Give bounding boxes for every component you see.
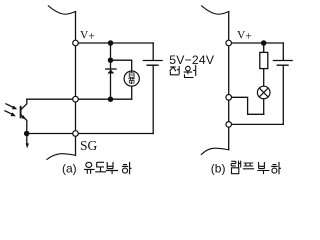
phototransistor Q1 base bar (20, 107, 22, 118)
svg-text:V+: V+ (237, 29, 252, 42)
label 원 (hand-drawn hangul: won) (184, 65, 196, 78)
wire: circuit (b) top break squiggle (202, 6, 229, 14)
wire: circuit (a) right vertical to battery + (152, 43, 154, 60)
node: junction dot on V+ rail (108, 40, 114, 46)
wire: circuit (a) left vertical rail (75, 12, 77, 156)
lamp LP1 circle with X (257, 86, 270, 99)
battery B2 long plate (+) (273, 60, 292, 62)
phototransistor Q1 emitter end arrowhead (26, 143, 29, 148)
node: junction dot diode/load tap (108, 57, 114, 63)
label 하 (caption b, hand-drawn hangul: ha) (271, 162, 281, 174)
phototransistor Q1 emitter lead with arrow (21, 114, 27, 142)
wire: circuit (b) battery - down and left to lower terminal (229, 66, 284, 125)
load L1 label char 1 (fu/load kanji, approximated) (129, 72, 134, 77)
svg-text:5V−24V: 5V−24V (169, 53, 215, 67)
diode D1 triangle (anode, pointing up) (107, 70, 114, 74)
wire: lamp bottom lead (263, 99, 265, 115)
wire: load tap to load circle (111, 60, 132, 71)
wire: load bottom lead (131, 86, 133, 99)
wire: circuit (b) top rail (229, 42, 284, 44)
resistor R1 box (260, 52, 268, 68)
label 램 (hand-drawn hangul: raem) (231, 161, 241, 174)
wire: circuit (a) collector rail (27, 98, 132, 100)
label 프 (hand-drawn hangul: peu) (243, 163, 254, 169)
light arrow 2 into Q1 (5, 111, 13, 115)
wire: dot to resistor top (263, 43, 265, 52)
wire: circuit (a) bottom break squiggle (47, 154, 76, 160)
wire: circuit (b) right vertical to battery + (282, 43, 284, 60)
wire: circuit (a) battery - down to SG rail (152, 66, 154, 134)
battery B1 short plate (-) (147, 64, 158, 66)
label 유 (hand-drawn hangul: yu) (84, 162, 95, 174)
label 도 (hand-drawn hangul: do) (95, 162, 106, 172)
wire: circuit (a) top break squiggle (48, 6, 75, 14)
phototransistor Q1 emitter arrowhead (22, 115, 26, 119)
node: open terminal V+ (b) (226, 40, 232, 46)
svg-text:(b): (b) (211, 161, 226, 175)
svg-text:(a): (a) (62, 161, 77, 175)
node: open terminal SG (a) (73, 131, 79, 137)
label 하 (caption a, hand-drawn hangul: ha) (122, 162, 132, 174)
svg-text:V+: V+ (80, 29, 95, 42)
wire: circuit (a) top rail V+ to battery (76, 42, 154, 44)
node: junction dot emitter on SG rail (24, 131, 30, 137)
node: open terminal (b) lower (226, 122, 232, 128)
wire: circuit (a) SG rail (27, 133, 154, 135)
wire: circuit (b) bottom break squiggle (201, 148, 228, 154)
battery B2 short plate (-) (277, 64, 288, 66)
node: open terminal (b) upper (226, 95, 232, 101)
load L1 circle (124, 71, 139, 86)
load L1 label char 2 (ka/load kanji, approximated) (129, 78, 135, 84)
wire: Z-route lamp to left terminal (229, 97, 264, 114)
node: open terminal V+ (a) (73, 40, 79, 46)
label 전원 (hand-drawn hangul: jeon) (170, 66, 180, 75)
label 부 (caption b, hand-drawn hangul: bu) (257, 162, 269, 174)
wire: resistor bottom to lamp top (263, 69, 265, 87)
label 부 (caption a, hand-drawn hangul: bu) (106, 162, 118, 174)
battery B1 long plate (+) (143, 60, 162, 62)
wire: circuit (b) left vertical rail (228, 12, 230, 150)
wire: diode branch vertical (110, 43, 112, 99)
svg-text:SG: SG (80, 138, 98, 153)
diode D1 cathode bar (106, 68, 116, 70)
phototransistor Q1 collector lead (21, 99, 27, 110)
node: junction dot on collector rail (108, 96, 114, 102)
node: open terminal collector (a) (73, 96, 79, 102)
light arrow 1 into Q1 (6, 104, 14, 108)
node: junction dot on (b) top rail (261, 40, 267, 46)
